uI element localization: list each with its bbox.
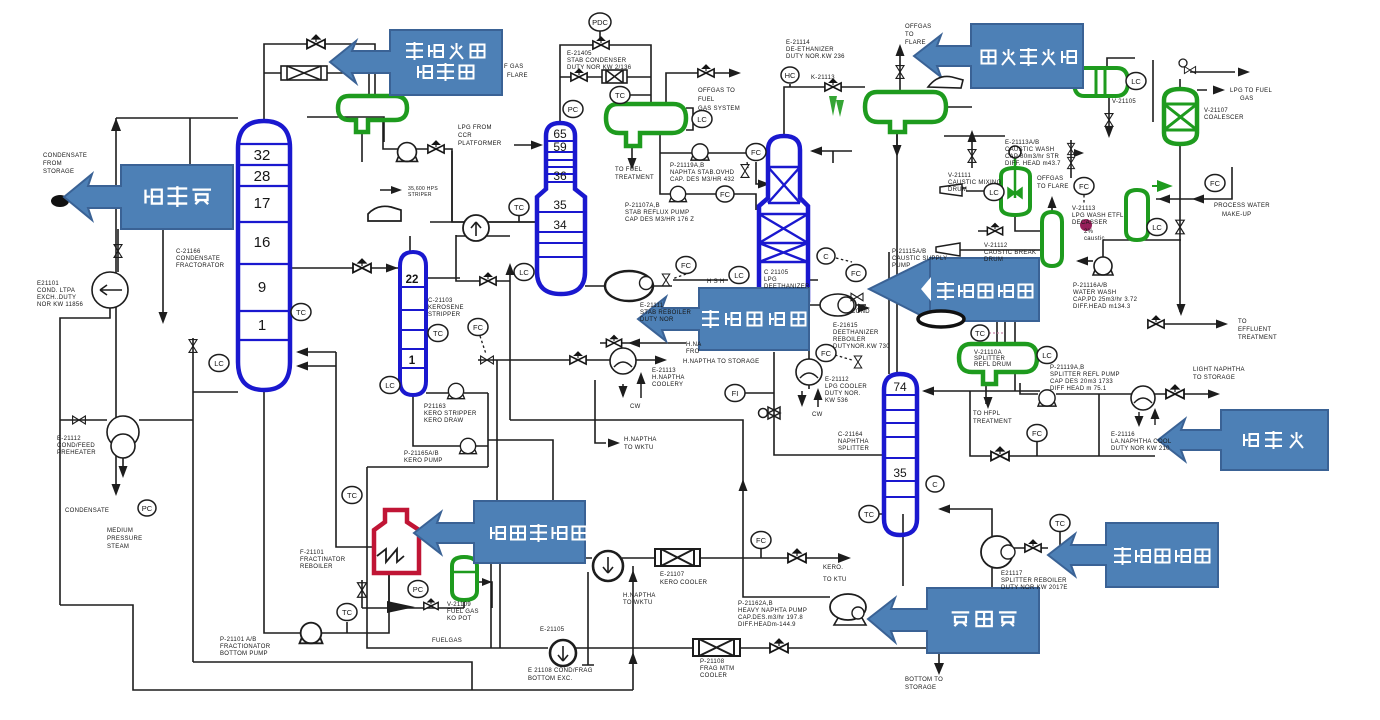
drum V-21110 splitter reflux drum: [959, 344, 1037, 384]
svg-text:KO POT: KO POT: [447, 616, 472, 622]
svg-text:E-21112: E-21112: [57, 436, 81, 442]
E-21112 preheater circles: [107, 416, 139, 448]
svg-text:LC: LC: [519, 268, 529, 277]
svg-text:TC: TC: [514, 203, 525, 212]
E-21111 stab reboiler ellipse: [605, 271, 653, 301]
instrument TC: [342, 487, 362, 504]
pump kero stripper draw pump: [448, 383, 465, 398]
instrument FC: [746, 144, 766, 161]
svg-text:DRUM: DRUM: [948, 187, 967, 193]
valve on preheater inlet: [73, 416, 86, 424]
svg-text:TC: TC: [433, 329, 444, 338]
exchanger behind reboiler callout: [918, 311, 964, 327]
pipe: reboiler risers to drum: [997, 321, 1015, 344]
column C-21102 stabilizer (two-diameter): [537, 123, 585, 294]
svg-text:COOLERY: COOLERY: [652, 382, 683, 388]
arrow: to HPS stripper stub: [391, 186, 402, 194]
svg-text:DEETHANIZER: DEETHANIZER: [764, 284, 810, 290]
svg-text:E 21108 COND/FRAG: E 21108 COND/FRAG: [528, 668, 593, 674]
pipe: splitter bottom circuit: [877, 509, 992, 589]
valve on stab recirc loop: [480, 273, 496, 285]
arrow: offgas flare top right: [896, 44, 905, 56]
instrument TC: [337, 604, 357, 621]
callout: fired reboiler 炉膛重沸器: [414, 501, 585, 563]
pipe: feed pump suction line: [118, 229, 163, 318]
svg-text:FI: FI: [732, 389, 739, 398]
pipe: h-naphtha rundown line: [478, 360, 664, 501]
pump P-21107 stab reflux pump: [670, 186, 687, 201]
svg-text:STRIPER: STRIPER: [408, 192, 432, 198]
svg-text:STORAGE: STORAGE: [43, 169, 74, 175]
valve on kero to KTU: [788, 549, 806, 563]
pipe: column1 overhead to fin-fan: [264, 44, 375, 121]
arrow: feed line down: [159, 312, 168, 324]
drum V-21102 overhead accumulator (top-left green): [338, 96, 407, 132]
svg-text:F-21101: F-21101: [300, 550, 324, 556]
pipe: deethanizer feed arrow: [812, 151, 852, 163]
svg-text:KERO DRAW: KERO DRAW: [424, 418, 464, 424]
pipe: coalescer water leg: [1179, 144, 1181, 312]
pump P-21165 kero pump: [460, 438, 477, 453]
valve on h-naphtha rundown: [570, 352, 586, 364]
pipe: naphtha product header y420: [510, 420, 830, 597]
svg-text:DUTYNOR.KW 730: DUTYNOR.KW 730: [833, 344, 890, 350]
svg-text:FRACTINATOR: FRACTINATOR: [300, 557, 346, 563]
instrument TC: [428, 325, 448, 342]
valve on feed pump suction: [114, 245, 122, 258]
svg-text:COND: COND: [851, 309, 870, 315]
svg-text:TO: TO: [1238, 319, 1247, 325]
arrow: kero bypass up arrows: [629, 570, 638, 664]
svg-text:65: 65: [553, 127, 567, 141]
pipe: coalescer overhead to LPG: [1180, 72, 1235, 90]
svg-text:COND. LTPA: COND. LTPA: [37, 288, 75, 294]
svg-text:DIFF.HEAD m134.3: DIFF.HEAD m134.3: [1073, 304, 1131, 310]
steam trap shoe symbol: [368, 206, 401, 221]
svg-text:PLATFORMER: PLATFORMER: [458, 141, 502, 147]
pipe: column1 top reflux return: [307, 117, 384, 142]
pipe: column1 kerosene sidedraw to stripper: [290, 267, 400, 269]
svg-text:KERO STRIPPER: KERO STRIPPER: [424, 411, 477, 417]
valve on LPG to fuel gas: [1184, 67, 1195, 74]
pipe: LPG cooler line: [808, 325, 810, 389]
arrow: break drum offgas up: [1048, 196, 1057, 208]
pipe: process water make-up line: [1156, 167, 1232, 199]
instrument HC: [781, 67, 799, 83]
svg-text:DEETHANIZER: DEETHANIZER: [833, 330, 879, 336]
arrow: h naphtha to storage: [655, 356, 667, 365]
svg-text:FC: FC: [1210, 179, 1221, 188]
svg-text:V-21105: V-21105: [1112, 99, 1136, 105]
svg-text:MEDIUM: MEDIUM: [107, 528, 133, 534]
valve on caustic wash riser: [968, 150, 976, 163]
svg-text:CAUSTIC BREAK: CAUSTIC BREAK: [984, 250, 1036, 256]
pipe: kero cooler bypass riser: [632, 566, 634, 690]
svg-text:CONDENSATE: CONDENSATE: [65, 508, 109, 514]
instrument C: [926, 476, 944, 492]
pump P-21119 splitter reflux pump: [1038, 390, 1056, 406]
column C-21103 kerosene stripper: [400, 252, 426, 395]
pipe: preheater bottom outlet: [122, 448, 124, 474]
instrument FC: [1074, 178, 1094, 195]
black reducer wedge furnace outlet: [387, 601, 415, 613]
svg-text:caustic: caustic: [1084, 236, 1105, 242]
svg-text:TC: TC: [342, 608, 353, 617]
instrument TC: [291, 304, 311, 321]
stab condenser X-box: [602, 70, 627, 83]
pipe: bottoms pump discharge to furnace: [320, 573, 389, 633]
svg-text:DECASSER: DECASSER: [1072, 220, 1108, 226]
svg-text:DIFF HEAD m 75.1: DIFF HEAD m 75.1: [1050, 386, 1107, 392]
pipe: caustic break drum riser: [1051, 200, 1053, 212]
svg-text:E-21113A/B: E-21113A/B: [1005, 140, 1039, 146]
valve on bottoms rundown: [770, 639, 788, 653]
svg-text:CAP DES M3/HR 176 Z: CAP DES M3/HR 176 Z: [625, 217, 694, 223]
svg-text:REBOILER: REBOILER: [833, 337, 866, 343]
svg-text:FUELGAS: FUELGAS: [432, 638, 462, 644]
H naphtha cooler circle: [610, 348, 636, 374]
svg-text:KERO COOLER: KERO COOLER: [660, 580, 708, 586]
pipe: effluent header: [1103, 240, 1224, 324]
svg-text:SPLITTER REBOILER: SPLITTER REBOILER: [1001, 578, 1067, 584]
instrument LC: [380, 377, 400, 394]
pipe: furnace outlet bottom: [362, 573, 464, 608]
svg-text:LPG COOLER: LPG COOLER: [825, 384, 867, 390]
arrow: process water into line: [1158, 195, 1204, 204]
arrow: kero to KTU: [838, 553, 851, 563]
instrument TC: [610, 87, 630, 104]
pipe: drum B level bracket: [686, 108, 693, 130]
svg-text:LA.NAPHTHA COOL: LA.NAPHTHA COOL: [1111, 439, 1172, 445]
column C-21164 naphtha splitter: [884, 374, 917, 535]
svg-text:TO KTU: TO KTU: [823, 577, 847, 583]
arrow: drum boot down to fuel trtmt: [628, 158, 637, 170]
svg-text:COND/FEED: COND/FEED: [57, 443, 95, 449]
svg-text:STEAM: STEAM: [107, 544, 129, 550]
pipe: splitter reflux return: [924, 372, 1040, 391]
fin-fan cooler X-box: [281, 66, 327, 80]
svg-text:CAP.DES.m3/hr 197.8: CAP.DES.m3/hr 197.8: [738, 615, 803, 621]
arrow: bottoms to storage down: [934, 663, 944, 675]
valve on effluent line: [1148, 316, 1164, 328]
svg-text:DUTY NOR KW 2/136: DUTY NOR KW 2/136: [567, 65, 632, 71]
pipe: offgas to fuel gas line: [666, 73, 737, 104]
pump P-21119 naphtha stab ovhd pump: [691, 144, 709, 160]
svg-text:E-21116: E-21116: [1111, 432, 1135, 438]
stab feed exchanger circle with up arrow: [463, 215, 489, 241]
svg-text:NOR KW 11856: NOR KW 11856: [37, 302, 84, 308]
svg-text:E-21113: E-21113: [652, 368, 676, 374]
L naphtha cooler circle: [1131, 386, 1155, 410]
svg-text:C-21103: C-21103: [428, 298, 453, 304]
svg-text:16: 16: [254, 234, 271, 251]
arrow: caustic wash up: [968, 130, 977, 142]
svg-text:P-21108: P-21108: [700, 659, 725, 665]
svg-text:32: 32: [254, 147, 271, 164]
svg-text:LC: LC: [1152, 223, 1162, 232]
svg-text:LIGHT NAPHTHA: LIGHT NAPHTHA: [1193, 367, 1245, 373]
CW arrows LPG cooler: [798, 388, 823, 407]
valve on light naphtha rundown: [1166, 385, 1184, 399]
pipe: condensate from storage header: [116, 118, 238, 430]
callout: product pump 产品泵: [868, 588, 1039, 653]
instrument PC: [563, 101, 583, 118]
valve pair lower: [1068, 157, 1075, 168]
svg-text:P-21107A,B: P-21107A,B: [625, 203, 660, 209]
svg-text:CAUSTIC WASH: CAUSTIC WASH: [1005, 147, 1054, 153]
svg-text:CAP. DES M3/HR 432: CAP. DES M3/HR 432: [670, 177, 735, 183]
svg-text:E21117: E21117: [1001, 571, 1023, 577]
svg-text:FC: FC: [473, 323, 484, 332]
svg-text:E-21105: E-21105: [540, 627, 565, 633]
svg-text:V-21113: V-21113: [1072, 206, 1096, 212]
callout: steam reboiler 蒸汽再沸器 (stabilizer): [638, 288, 809, 350]
pipe: h-naphtha from line: [600, 342, 686, 344]
pipe: splitter ovhd to reflux drum: [889, 132, 897, 374]
svg-text:P-21115A/B: P-21115A/B: [892, 249, 926, 255]
svg-text:FRAG MTM: FRAG MTM: [700, 666, 734, 672]
svg-text:FC: FC: [756, 536, 767, 545]
instrument FC: [1205, 175, 1225, 192]
svg-text:PRESSURE: PRESSURE: [107, 536, 142, 542]
svg-text:LC: LC: [989, 188, 999, 197]
arrow: preheater down: [119, 466, 128, 478]
svg-text:COALESCER: COALESCER: [1204, 115, 1244, 121]
svg-text:STAB CONDENSER: STAB CONDENSER: [567, 58, 627, 64]
pipe: light naphtha rundown: [1020, 383, 1215, 394]
svg-text:DIFF. HEAD m43.7: DIFF. HEAD m43.7: [1005, 161, 1061, 167]
pipe: LPG from CCR feed arrow: [380, 145, 540, 190]
E-21106 kero exchanger circle: [593, 551, 623, 581]
svg-text:FC: FC: [1032, 429, 1043, 438]
svg-text:LC: LC: [214, 359, 224, 368]
svg-text:WATER WASH: WATER WASH: [1073, 290, 1116, 296]
svg-text:LC: LC: [697, 115, 707, 124]
arrow: furnace returns into col1: [296, 348, 308, 371]
svg-text:H.NAPTHA TO STORAGE: H.NAPTHA TO STORAGE: [683, 359, 759, 365]
E-21115 deeth reboiler circles: [820, 294, 856, 316]
svg-text:TC: TC: [975, 329, 986, 338]
svg-text:CCR: CCR: [458, 133, 472, 139]
pump P-21106 ovhd product pump: [397, 143, 418, 162]
pipe: furnace return risers into column1: [298, 352, 374, 547]
svg-text:H.NA: H.NA: [686, 342, 702, 348]
magenta sample point: [1080, 219, 1092, 231]
heavy naphtha pump (large): [830, 594, 866, 620]
drum V-21106 deethanizer reflux drum (right green): [865, 92, 946, 132]
callout: steam reboiler 蒸汽再沸器 (splitter): [1048, 523, 1218, 587]
pipe: frac bottoms rundown: [367, 467, 927, 648]
svg-text:PC: PC: [142, 504, 153, 513]
signal dash magenta: [989, 332, 1004, 334]
instrument FC: [676, 257, 696, 274]
svg-text:F GAS: F GAS: [504, 64, 524, 70]
svg-text:TO HFPL: TO HFPL: [973, 411, 1001, 417]
instrument PC: [408, 581, 428, 598]
svg-text:BOTTOM EXC.: BOTTOM EXC.: [528, 676, 573, 682]
E-21117 splitter reboiler circle: [981, 536, 1013, 568]
pipe: water wash pump suction: [1078, 260, 1093, 262]
svg-text:STRIPPER: STRIPPER: [428, 312, 461, 318]
instrument FC: [846, 265, 866, 282]
svg-text:FROM: FROM: [43, 161, 62, 167]
instrument bubbles: [138, 13, 1225, 621]
arrow: splitter reflux into col5: [922, 387, 934, 396]
arrow: caustic line right: [1074, 149, 1084, 157]
pipe: KO pot vapor outlet: [477, 582, 492, 608]
svg-text:1: 1: [258, 317, 266, 334]
instrument FC: [468, 319, 488, 336]
arrow: splitter bottom feed: [938, 505, 950, 514]
svg-text:36: 36: [553, 169, 567, 183]
svg-text:DUTY NOR: DUTY NOR: [640, 317, 674, 323]
callout: fin-fan cooler 翅片风扇冷却器: [330, 30, 502, 95]
svg-text:FUEL: FUEL: [698, 97, 715, 103]
valve on coalescer water leg: [1176, 220, 1185, 234]
svg-text:28: 28: [254, 168, 271, 185]
arrow: offgas to fuel gas: [729, 69, 741, 78]
svg-text:E-21107: E-21107: [660, 572, 685, 578]
svg-text:KERO PUMP: KERO PUMP: [404, 458, 443, 464]
valve at deeth reboiler: [851, 293, 863, 301]
arrow: settler drain down: [1105, 126, 1114, 138]
svg-text:FRACTORATOR: FRACTORATOR: [176, 263, 225, 269]
svg-text:STAB REFLUX PUMP: STAB REFLUX PUMP: [625, 210, 689, 216]
arrow: LPG from CCR into stab: [531, 141, 543, 150]
pipe: stab recirculation loop: [410, 235, 510, 420]
pipe: stab ovhd condenser loop: [519, 31, 651, 222]
arrow: condensate line up: [111, 118, 121, 131]
pipe: settler boot drain: [1108, 96, 1110, 132]
svg-text:TC: TC: [615, 91, 626, 100]
svg-text:FC: FC: [851, 269, 862, 278]
svg-text:1: 1: [409, 355, 416, 367]
valve under PDC: [593, 37, 609, 49]
svg-text:V-21111: V-21111: [948, 173, 971, 179]
pipe: bottom-left boundary lines: [60, 605, 633, 690]
column C-21101 condensate fractionator: [238, 121, 290, 390]
svg-text:TO FUEL: TO FUEL: [615, 167, 643, 173]
valve at KO pot inlet: [424, 599, 438, 610]
pipe: caustic break drum feed: [960, 191, 1042, 250]
svg-text:E-21112: E-21112: [825, 377, 849, 383]
arrow: wktu stub: [608, 439, 620, 448]
svg-text:9: 9: [258, 279, 266, 296]
svg-text:P-21119A,B: P-21119A,B: [670, 163, 704, 169]
pipe: H naphtha WKTU stub: [595, 380, 606, 443]
arrow: condensate down: [112, 484, 121, 496]
svg-text:CONDENSATE: CONDENSATE: [43, 153, 87, 159]
svg-text:TO: TO: [905, 32, 914, 38]
svg-text:DE-ETHANIZER: DE-ETHANIZER: [786, 47, 834, 53]
svg-text:KW 536: KW 536: [825, 398, 849, 404]
svg-text:CONDENSATE: CONDENSATE: [176, 256, 220, 262]
column C-21105 LPG de-ethanizer packed: [759, 136, 808, 300]
svg-text:OFFGAS: OFFGAS: [905, 24, 931, 30]
svg-text:OFFGAS TO: OFFGAS TO: [698, 88, 735, 94]
svg-text:FRACTIONATOR: FRACTIONATOR: [220, 644, 271, 650]
valve under reboiler FC: [662, 274, 670, 286]
instrument FC: [751, 532, 771, 549]
valve on condenser bypass: [571, 69, 587, 81]
svg-text:EXCH..DUTY: EXCH..DUTY: [37, 295, 76, 301]
svg-text:REFL DRUM: REFL DRUM: [974, 362, 1011, 368]
arrow: to HFL treatment down: [984, 397, 993, 409]
svg-text:C-21164: C-21164: [838, 432, 863, 438]
arrow: KO pot outlet: [482, 578, 492, 586]
green control valve deethanizer: [829, 96, 844, 117]
svg-text:P-21119A,B: P-21119A,B: [1050, 365, 1084, 371]
instrument PDC: [589, 13, 611, 31]
svg-text:GAS SYSTEM: GAS SYSTEM: [698, 106, 740, 112]
svg-text:LPG WASH ETFL: LPG WASH ETFL: [1072, 213, 1124, 219]
svg-text:FLARE: FLARE: [905, 40, 926, 46]
svg-text:TC: TC: [1055, 519, 1066, 528]
vessel V-21113 LPG wash degasser: [1126, 190, 1148, 240]
arrow: stab recirc up: [506, 263, 515, 275]
pipe: naphtha splitter feed FI: [745, 392, 774, 394]
arrow: coalescer leg down: [1177, 304, 1186, 316]
svg-text:LPG FROM: LPG FROM: [458, 125, 492, 131]
svg-text:REBOILER: REBOILER: [300, 564, 333, 570]
svg-text:FC: FC: [1079, 182, 1090, 191]
instrument LC: [984, 184, 1004, 201]
pipe: kero rundown header: [488, 440, 840, 558]
pipe: bottoms to storage: [938, 653, 940, 670]
svg-text:BOTTOM PUMP: BOTTOM PUMP: [220, 651, 268, 657]
pipe: stab feed exchanger line: [430, 151, 537, 222]
instrument LC: [1126, 73, 1146, 90]
pipe: caustic wash line: [944, 107, 1071, 178]
svg-text:LPG: LPG: [764, 277, 777, 283]
svg-text:FC: FC: [821, 349, 832, 358]
svg-text:STORAGE: STORAGE: [905, 685, 936, 691]
pipe: kero FC stem: [760, 549, 762, 558]
pipe: deethanizer reboiler line: [585, 280, 818, 286]
arrow: stab feed arrow into col4: [758, 180, 770, 189]
vessel V-21107 coalescer: [1164, 89, 1197, 144]
arrow: water wash pump in: [1076, 257, 1088, 266]
pump P-21116 water wash pump: [1093, 257, 1113, 275]
svg-text:TREATMENT: TREATMENT: [973, 419, 1012, 425]
pipe: refl drum boot to treatment: [985, 386, 987, 404]
svg-text:TREATMENT: TREATMENT: [1238, 335, 1277, 341]
instrument LC: [692, 111, 712, 128]
pump P-21101 fractionator bottom pump: [300, 623, 323, 644]
svg-text:HEAVY NAPHTA PUMP: HEAVY NAPHTA PUMP: [738, 608, 807, 614]
svg-text:STAB REBOILER: STAB REBOILER: [640, 310, 692, 316]
pipe: light naphtha CW return loop: [970, 391, 1155, 456]
pipe: caustic settler vapor line: [1107, 58, 1153, 122]
svg-text:PC: PC: [413, 585, 424, 594]
svg-text:59: 59: [553, 140, 567, 154]
svg-text:35: 35: [553, 198, 567, 212]
svg-text:H.NAPTHA: H.NAPTHA: [623, 593, 656, 599]
svg-text:EFFLUENT: EFFLUENT: [1238, 327, 1271, 333]
svg-text:P-21116A/B: P-21116A/B: [1073, 283, 1107, 289]
svg-text:C: C: [932, 480, 938, 489]
valve on naphtha return loop: [991, 447, 1009, 461]
svg-text:C 21105: C 21105: [764, 270, 789, 276]
svg-text:H S H: H S H: [707, 279, 725, 285]
instrument FC: [816, 345, 836, 362]
svg-text:P-21165A/B: P-21165A/B: [404, 451, 439, 457]
pipe: stripper reflux pump line: [426, 392, 488, 394]
svg-text:V-21112: V-21112: [984, 243, 1008, 249]
svg-text:V-21109: V-21109: [447, 602, 471, 608]
svg-text:2%: 2%: [1084, 229, 1094, 235]
svg-text:COOLER: COOLER: [700, 673, 728, 679]
